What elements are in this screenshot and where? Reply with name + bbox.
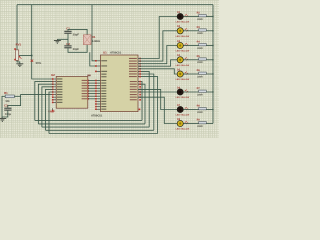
LED D7 <box>177 106 188 112</box>
U1 left pin P1.6 <box>95 95 106 97</box>
U1 left pin P1.5 <box>95 93 106 95</box>
resistor R8 <box>199 108 207 110</box>
wire P0.0 to D1 <box>138 17 177 59</box>
U1 right pin P2.5 <box>130 94 141 96</box>
bus riser wire 5 <box>138 77 158 134</box>
svg-text:220R: 220R <box>197 18 203 21</box>
wire RV1 bottom to ground <box>17 60 20 63</box>
U2 bottom pin stub <box>52 108 54 111</box>
wire U2 to U1 row 2 <box>88 82 100 84</box>
U1 right pin P2.2 <box>130 86 141 88</box>
U1 right pin P0.3 <box>129 65 141 67</box>
U1 right pin P2.4 <box>130 91 141 93</box>
wire D2 to R3 <box>184 30 199 32</box>
U1 right pin P0.6 <box>129 73 141 75</box>
right bus wire <box>212 5 214 124</box>
svg-text:RV1: RV1 <box>16 42 22 46</box>
svg-text:220R: 220R <box>197 111 203 114</box>
svg-text:220R: 220R <box>197 75 203 78</box>
U2 right pin 5 <box>82 90 89 92</box>
svg-text:U2: U2 <box>51 73 55 77</box>
svg-text:LED-YELLOW: LED-YELLOW <box>176 128 190 131</box>
wire D3 to R4 <box>184 45 199 47</box>
wire D1 to R2 <box>184 16 199 18</box>
LED D2 <box>177 28 188 34</box>
capacitor C2 <box>64 45 71 48</box>
ground (pot) <box>16 64 23 67</box>
bottom bus wire 3 <box>42 126 149 128</box>
svg-text:U1: U1 <box>103 50 107 54</box>
wire P0.3 to D4 <box>138 60 177 66</box>
svg-text:150p: 150p <box>5 113 11 116</box>
svg-text:10k: 10k <box>5 100 10 103</box>
svg-text:30pF: 30pF <box>73 48 80 51</box>
capacitor C1 <box>64 31 71 34</box>
wire C2 bottom to crystal bottom <box>68 45 87 53</box>
LED D3 <box>177 42 188 48</box>
U2 right pin 4 <box>82 88 89 90</box>
U2 left pin 6 <box>52 91 63 93</box>
U1 right pin P2.0 <box>130 81 141 83</box>
wire U2 pin to bottom bus 2 <box>38 84 52 124</box>
svg-text:220R: 220R <box>197 32 203 35</box>
wire C3 top <box>8 96 21 107</box>
wire U2 to U1 row 3 <box>88 85 100 87</box>
ground (RC) <box>0 117 6 121</box>
U2 right pin 8 <box>82 98 89 100</box>
wire R3 to bus <box>206 30 213 32</box>
U1 left pin group C 1 <box>95 101 106 103</box>
wire C3 bottom to ground <box>2 111 8 117</box>
wire U2 to U1 row 5 <box>88 90 100 92</box>
wire P0.2 to D3 <box>138 46 177 64</box>
U1 left pin P1.0 <box>95 80 106 82</box>
U2 VCC pin number <box>87 75 90 77</box>
wire D7 to R8 <box>184 109 199 111</box>
U1 left pin group C 3 <box>95 106 106 108</box>
U1 right pin P2.7 <box>130 99 141 101</box>
wire crystal to XTAL2 <box>90 52 96 66</box>
U2 left pin 4 <box>52 86 63 88</box>
bus riser wire 4 <box>138 74 154 130</box>
wire U2 to U1 row 6 <box>88 93 100 95</box>
svg-text:220R: 220R <box>197 61 203 64</box>
U1 right pin P0.4 <box>129 68 141 70</box>
bottom bus wire 5 <box>49 133 158 135</box>
wire R5 to bus <box>206 59 213 61</box>
U2 left pin 2 <box>52 81 63 83</box>
junction dot bus row 2 <box>212 30 213 31</box>
wire R2 to bus <box>206 16 213 18</box>
wire D6 to R7 <box>184 91 199 93</box>
wire U2 to U1 row 4 <box>88 87 100 89</box>
resistor R6 <box>199 72 207 74</box>
resistor R3 <box>199 29 207 31</box>
junction dot bus row 5 <box>212 73 213 74</box>
U1 bottom right pin dot <box>139 109 141 111</box>
wire D5 to R6 <box>184 73 199 75</box>
LED D4 <box>177 57 188 63</box>
wire P0.4 to D5 <box>138 69 177 74</box>
U2 right pin 2 <box>82 82 89 84</box>
wire cap midpoint <box>57 34 68 46</box>
resistor R7 <box>199 90 207 92</box>
U2 right pin 3 <box>82 85 89 87</box>
wire U2 to U1 row 7 <box>88 95 100 97</box>
ground (caps) <box>54 39 61 43</box>
svg-text:LED-YELLOW: LED-YELLOW <box>176 78 190 81</box>
U1 left pin group A 3 <box>95 71 107 73</box>
pot percent marker <box>31 60 34 62</box>
svg-text:AT89C51: AT89C51 <box>91 114 103 117</box>
U1 left pin P1.2 <box>95 85 106 87</box>
LED D8 <box>177 120 188 126</box>
U1 right pin P0.5 <box>129 71 141 73</box>
wire RV1 wiper to node <box>19 55 32 57</box>
U2 right pin 1 <box>82 80 89 82</box>
junction dot bus row 1 <box>212 16 213 17</box>
wire P2.6 to D8 <box>138 97 177 123</box>
LED D1 <box>177 13 188 19</box>
wire U2 to U1 row 1 <box>88 80 100 82</box>
svg-text:LED-YELLOW: LED-YELLOW <box>176 64 190 67</box>
U2 left pin 7 <box>52 94 63 96</box>
U1 left pin group C 2 <box>95 103 106 105</box>
wire U2 to U1 row 8 <box>88 98 100 100</box>
U1 left pin P1.4 <box>95 90 106 92</box>
U1 right pin P0.2 <box>129 63 141 65</box>
junction dot bus row 6 <box>212 91 213 92</box>
wire D4 to R5 <box>184 59 199 61</box>
wire rail to RV1 top <box>16 5 18 50</box>
wire U2 pin to bottom bus 4 <box>46 89 53 130</box>
U1 right pin P0.7 <box>129 76 141 78</box>
U2 left pin 5 <box>52 89 63 91</box>
U1 right pin P2.6 <box>130 96 141 98</box>
svg-text:220R: 220R <box>197 47 203 50</box>
junction dot bus row 3 <box>212 45 213 46</box>
svg-text:50%: 50% <box>36 61 42 65</box>
wire R1 left to ground <box>2 96 5 118</box>
svg-text:30pF: 30pF <box>73 33 80 36</box>
svg-text:AT89C51: AT89C51 <box>110 52 122 55</box>
wire U2 pin to bottom bus 3 <box>42 87 53 127</box>
U1 right pin P2.3 <box>130 89 141 91</box>
U1 left pin P1.3 <box>95 88 106 90</box>
bottom bus wire 1 <box>35 119 142 121</box>
U1 left pin P1.1 <box>95 82 106 84</box>
svg-text:LED-YELLOW: LED-YELLOW <box>176 96 190 99</box>
wire R6 to bus <box>206 73 213 75</box>
junction dot wiper node <box>31 55 33 57</box>
junction dot bus row 7 <box>212 109 213 110</box>
svg-text:LED-YELLOW: LED-YELLOW <box>176 35 190 38</box>
junction dot bus row 4 <box>212 59 213 60</box>
bottom bus wire 4 <box>46 129 154 131</box>
U1 left pin group B 2 <box>101 76 106 77</box>
U1 left pin group C 4 <box>95 108 106 110</box>
resistor R4 <box>199 44 207 46</box>
bus riser wire 2 <box>138 84 145 124</box>
wire R8 to bus <box>206 109 213 111</box>
svg-text:LED-YELLOW: LED-YELLOW <box>176 114 190 117</box>
svg-text:LED-YELLOW: LED-YELLOW <box>176 50 190 53</box>
U2 left pin 9 <box>52 99 63 101</box>
svg-text:220R: 220R <box>197 93 203 96</box>
svg-text:X1: X1 <box>92 35 96 39</box>
U2 left pin 3 <box>52 83 63 85</box>
potentiometer RV1 <box>14 48 21 60</box>
LED D5 <box>177 71 188 77</box>
wire P2.4 to D6 <box>138 91 177 93</box>
svg-text:R1: R1 <box>4 91 8 95</box>
U1 left pin P1.7 <box>95 98 106 100</box>
U2 right pin 6 <box>82 93 89 95</box>
IC U1 body <box>101 55 139 112</box>
resistor R1 <box>5 95 14 98</box>
resistor R2 <box>199 15 207 17</box>
wire C1 top to crystal top <box>68 29 87 34</box>
U1 left pin group B 1 <box>101 74 106 75</box>
bus riser wire 1 <box>138 82 142 121</box>
U1 left pin group A 1 <box>95 60 107 62</box>
wire P2.3 to D7 <box>138 89 177 109</box>
U1 left pin group A 2 <box>95 65 107 67</box>
resistor R9 <box>199 122 207 124</box>
wire R4 to bus <box>206 45 213 47</box>
resistor R5 <box>199 58 207 60</box>
bus riser wire 3 <box>138 71 149 127</box>
wire D8 to R9 <box>184 123 199 125</box>
wire R7 to bus <box>206 91 213 93</box>
svg-text:220R: 220R <box>197 125 203 128</box>
U2 left pin 1 <box>52 78 63 80</box>
wire U2 pin to bottom bus 5 <box>49 92 53 134</box>
wire rail down to U2 pin 1 <box>32 5 53 79</box>
bottom bus wire 2 <box>38 123 145 125</box>
svg-text:LED-YELLOW: LED-YELLOW <box>176 21 190 24</box>
wire P0.1 to D2 <box>138 31 177 61</box>
wire R9 to bus <box>206 123 213 125</box>
svg-text:12MHz: 12MHz <box>92 40 101 43</box>
U1 right pin P0.1 <box>129 60 141 62</box>
U2 left pin 8 <box>52 96 63 98</box>
LED D6 <box>177 89 188 95</box>
top rail wire <box>17 4 213 6</box>
U1 right pin P0.0 <box>129 58 141 60</box>
crystal X1 <box>83 35 91 45</box>
U2 left pin 10 <box>52 102 63 104</box>
wire rail down to XTAL1 <box>92 5 96 61</box>
capacitor C3 <box>4 108 11 111</box>
U2 right pin 7 <box>82 95 89 97</box>
U1 right pin P2.1 <box>130 83 141 85</box>
wire U2 pin to bottom bus 1 <box>35 82 53 121</box>
IC U2 body <box>56 77 88 109</box>
wire R1 right to U2 CLK pin <box>14 95 52 97</box>
